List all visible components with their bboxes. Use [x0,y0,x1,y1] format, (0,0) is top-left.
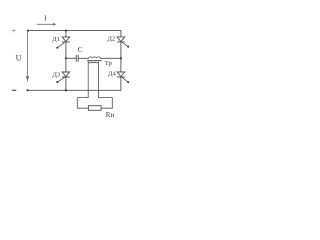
node plus terminal [12,26,16,35]
wire load bottom left [77,107,88,109]
node minus terminal [12,89,16,91]
node B junction left mid [65,57,67,59]
transformer Tp core [88,60,102,62]
node top-left junction [27,29,29,31]
wire mid cap to transformer [78,57,88,59]
wire bottom bus [28,89,121,91]
thyristor D4 [117,58,129,90]
thyristor D2 [117,31,129,59]
svg-text:Rн: Rн [106,111,115,119]
svg-text:C: C [78,46,83,54]
svg-text:Д3: Д3 [52,71,60,78]
current arrow I [37,24,55,26]
wire load bottom right [101,107,112,109]
thyristor D1 [56,31,69,59]
svg-text:Д1: Д1 [52,36,60,43]
svg-text:+: + [12,26,16,35]
wire secondary right leg [98,62,100,97]
svg-text:Тр: Тр [105,60,113,67]
capacitor C [76,55,78,61]
node C junction right mid [120,57,122,59]
thyristor D3 [56,58,69,90]
svg-text:U: U [16,54,22,63]
wire secondary left jog [77,98,88,109]
wire top bus [28,30,121,32]
wire mid right [100,57,121,59]
voltage arrow U [26,31,28,81]
label U [16,54,22,63]
wire mid left [66,57,76,59]
wire secondary left leg [87,62,89,97]
node bottom-left junction [26,89,28,91]
svg-text:I: I [44,15,47,23]
transformer Tp secondary winding [88,61,98,64]
transformer Tp primary winding [88,57,100,58]
node junction bottom of D3 [65,89,67,91]
wire secondary right jog [99,98,113,109]
resistor Rn [88,106,101,111]
node A junction top of D1 [65,29,67,31]
svg-text:Д2: Д2 [107,36,115,43]
svg-text:Д4: Д4 [108,70,116,77]
